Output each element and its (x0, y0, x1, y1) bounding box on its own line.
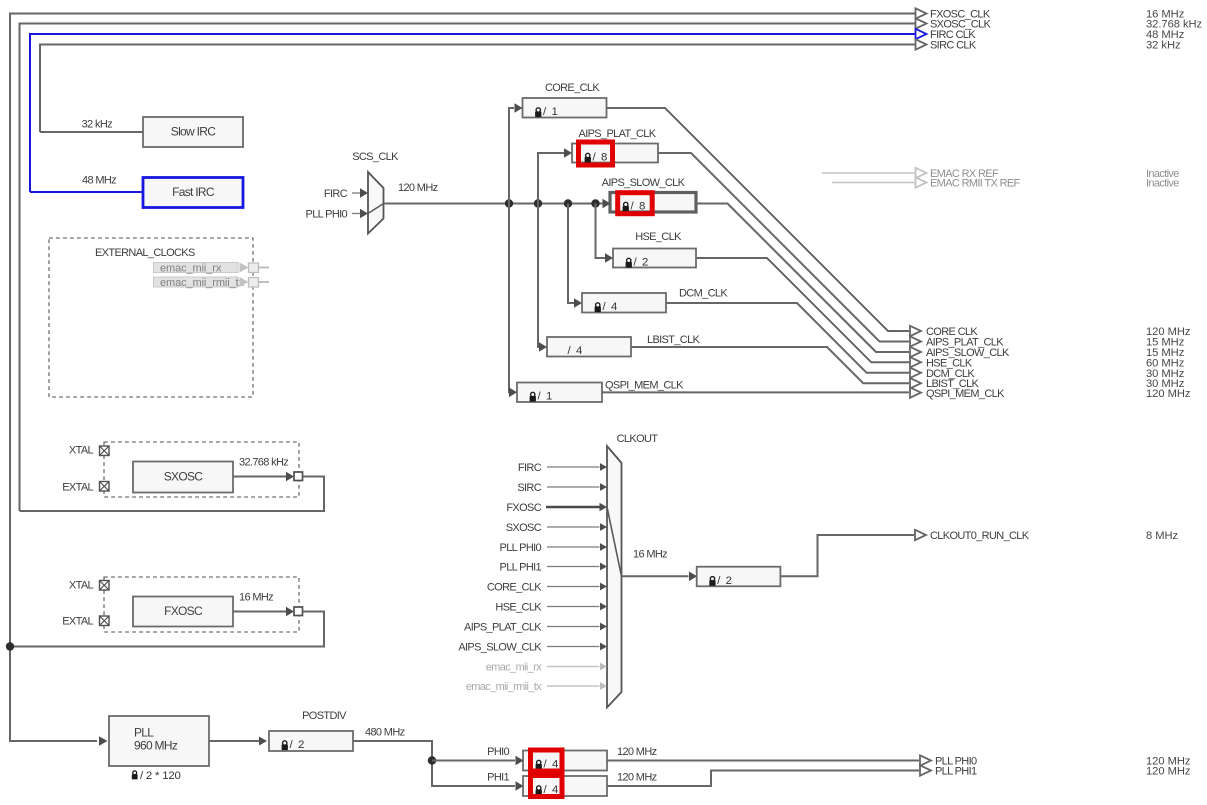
svg-text:FXOSC: FXOSC (164, 604, 203, 618)
svg-text:480 MHz: 480 MHz (365, 727, 405, 739)
svg-text:PLL PHI1: PLL PHI1 (935, 766, 977, 778)
svg-text:DCM_CLK: DCM_CLK (679, 288, 728, 300)
svg-text:HSE_CLK: HSE_CLK (635, 231, 682, 243)
svg-text:AIPS_PLAT_CLK: AIPS_PLAT_CLK (579, 128, 657, 140)
svg-text:CORE_CLK: CORE_CLK (487, 582, 542, 594)
svg-text:emac_mii_rmii_tx: emac_mii_rmii_tx (466, 681, 542, 693)
svg-text:32 kHz: 32 kHz (82, 119, 112, 131)
svg-text:LBIST_CLK: LBIST_CLK (647, 334, 701, 346)
svg-text:XTAL: XTAL (69, 445, 94, 457)
svg-text:PLL PHI0: PLL PHI0 (500, 542, 542, 554)
svg-text:QSPI_MEM_CLK: QSPI_MEM_CLK (605, 380, 684, 392)
svg-text:Inactive: Inactive (1146, 178, 1179, 190)
svg-text:HSE_CLK: HSE_CLK (495, 602, 542, 614)
svg-text:/ 2: / 2 (717, 575, 732, 587)
svg-text:POSTDIV: POSTDIV (302, 710, 347, 722)
svg-text:120 MHz: 120 MHz (617, 772, 657, 784)
svg-text:PLL PHI0: PLL PHI0 (306, 209, 348, 221)
svg-text:AIPS_PLAT_CLK: AIPS_PLAT_CLK (464, 622, 542, 634)
svg-text:/ 1: / 1 (543, 106, 558, 118)
svg-text:120 MHz: 120 MHz (1146, 766, 1191, 778)
svg-text:Slow IRC: Slow IRC (171, 125, 216, 139)
svg-text:FIRC: FIRC (518, 462, 542, 474)
svg-text:SXOSC: SXOSC (164, 470, 204, 484)
svg-text:AIPS_SLOW_CLK: AIPS_SLOW_CLK (458, 642, 542, 654)
svg-text:16 MHz: 16 MHz (239, 592, 273, 604)
svg-text:EXTERNAL_CLOCKS: EXTERNAL_CLOCKS (95, 247, 195, 259)
svg-text:/ 4: / 4 (568, 345, 583, 357)
svg-text:emac_mii_rx: emac_mii_rx (160, 262, 222, 274)
svg-text:/ 8: / 8 (631, 201, 646, 213)
svg-text:SCS_CLK: SCS_CLK (352, 151, 399, 163)
svg-text:SXOSC: SXOSC (506, 522, 542, 534)
svg-text:Fast IRC: Fast IRC (172, 185, 215, 199)
svg-text:PLL PHI1: PLL PHI1 (500, 562, 542, 574)
svg-text:PHI1: PHI1 (487, 772, 509, 784)
svg-text:120 MHz: 120 MHz (398, 182, 438, 194)
svg-text:QSPI_MEM_CLK: QSPI_MEM_CLK (926, 388, 1005, 400)
svg-text:/ 2: / 2 (634, 257, 649, 269)
svg-text:FIRC: FIRC (324, 188, 348, 200)
svg-text:AIPS_SLOW_CLK: AIPS_SLOW_CLK (602, 177, 686, 189)
svg-text:CORE_CLK: CORE_CLK (545, 82, 600, 94)
svg-text:/ 2 * 120: / 2 * 120 (140, 770, 181, 782)
svg-text:120 MHz: 120 MHz (617, 746, 657, 758)
svg-text:120 MHz: 120 MHz (1146, 388, 1191, 400)
svg-text:CLKOUT: CLKOUT (617, 433, 659, 445)
svg-text:emac_mii_rmii_tx: emac_mii_rmii_tx (160, 277, 245, 289)
svg-text:PHI0: PHI0 (487, 746, 509, 758)
svg-text:/ 2: / 2 (290, 739, 305, 751)
svg-text:16 MHz: 16 MHz (633, 549, 667, 561)
svg-text:8 MHz: 8 MHz (1146, 530, 1179, 542)
svg-text:emac_mii_rx: emac_mii_rx (486, 662, 542, 674)
svg-text:960 MHz: 960 MHz (134, 739, 178, 753)
svg-text:EXTAL: EXTAL (62, 482, 93, 494)
svg-text:FXOSC: FXOSC (506, 502, 541, 514)
svg-text:SIRC CLK: SIRC CLK (930, 40, 977, 52)
svg-text:PLL: PLL (134, 726, 154, 740)
svg-text:48 MHz: 48 MHz (82, 175, 116, 187)
svg-text:/ 4: / 4 (603, 301, 618, 313)
svg-text:EXTAL: EXTAL (62, 616, 93, 628)
svg-text:32.768 kHz: 32.768 kHz (239, 457, 288, 469)
svg-text:XTAL: XTAL (69, 580, 94, 592)
svg-text:EMAC RMII TX REF: EMAC RMII TX REF (930, 178, 1021, 190)
svg-text:/ 1: / 1 (538, 391, 553, 403)
svg-text:SIRC: SIRC (517, 482, 541, 494)
svg-text:32 kHz: 32 kHz (1146, 40, 1181, 52)
svg-text:/ 8: / 8 (593, 152, 608, 164)
svg-text:CLKOUT0_RUN_CLK: CLKOUT0_RUN_CLK (930, 530, 1030, 542)
